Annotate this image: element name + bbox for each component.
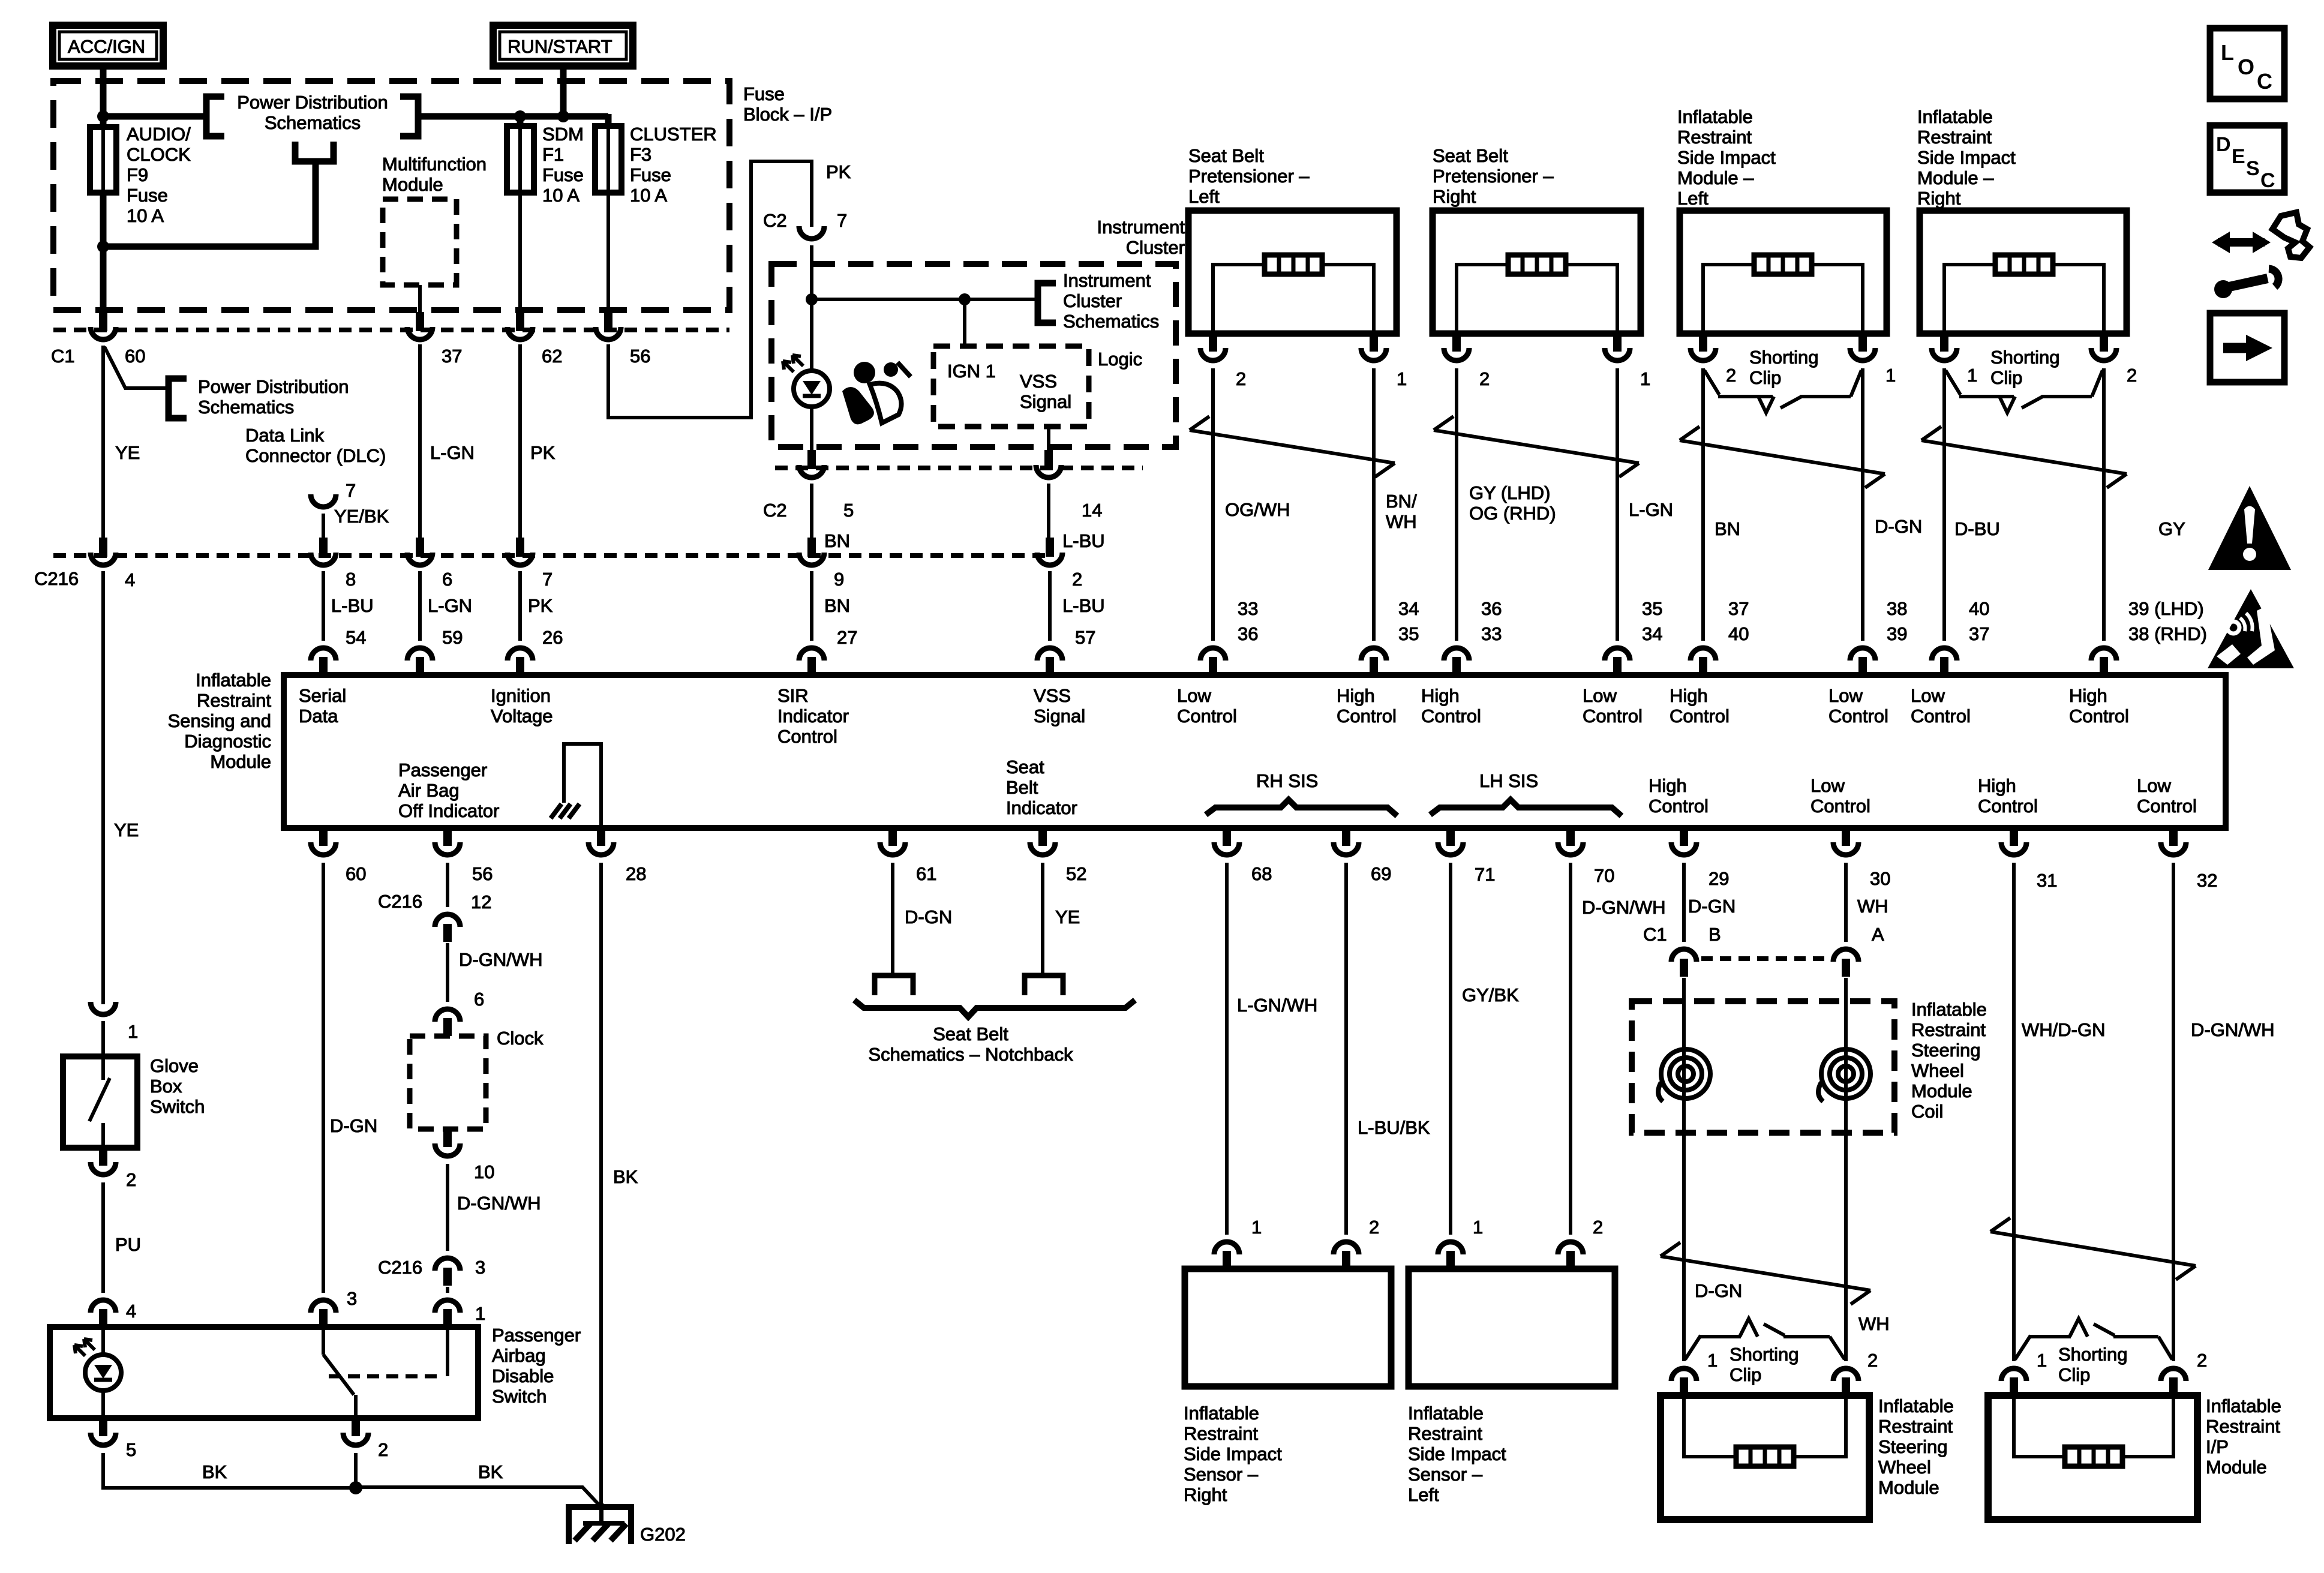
connector disable switch pin 1 <box>435 1300 460 1327</box>
svg-text:29: 29 <box>1709 868 1729 889</box>
svg-text:26: 26 <box>542 627 563 648</box>
connector SDM pin 31 <box>2001 828 2026 855</box>
svg-text:RH SIS: RH SIS <box>1256 770 1318 791</box>
svg-text:WH/D-GN: WH/D-GN <box>2022 1019 2105 1040</box>
svg-text:C216: C216 <box>34 568 79 589</box>
svg-text:Module: Module <box>2206 1457 2267 1478</box>
connector glove box pin 1 <box>91 1002 116 1014</box>
connector SDM pin 52 <box>1030 828 1055 855</box>
connector clock pin 10 <box>435 1129 460 1156</box>
svg-text:D-GN: D-GN <box>330 1115 377 1136</box>
svg-text:High: High <box>1649 775 1687 796</box>
svg-text:Clock: Clock <box>497 1028 544 1049</box>
svg-text:1: 1 <box>1967 365 1977 386</box>
connector clock pin 6 <box>435 1009 460 1036</box>
wire bracket to fuses F1/F3 <box>418 113 608 120</box>
junction node at F1 <box>514 110 526 122</box>
svg-text:Inflatable: Inflatable <box>1677 106 1753 127</box>
SDM module box <box>284 675 2226 828</box>
svg-text:Module: Module <box>210 751 271 772</box>
svg-text:2: 2 <box>1726 365 1736 386</box>
svg-text:Control: Control <box>1337 706 1397 727</box>
reference bracket ] power distribution <box>400 97 418 136</box>
connector SDM pin 28 <box>588 828 614 855</box>
svg-text:PK: PK <box>530 442 556 463</box>
wire WH/D-GN from SDM 31 <box>2012 863 2016 1361</box>
connector C216 pin 8 <box>311 538 336 565</box>
seat belt pretensioner left box <box>1188 211 1397 334</box>
svg-text:L-BU: L-BU <box>331 595 374 616</box>
svg-text:F9: F9 <box>127 164 148 185</box>
wire BK from pin 2 <box>354 1453 358 1488</box>
svg-text:WH: WH <box>1857 896 1888 917</box>
svg-text:14: 14 <box>1082 500 1102 521</box>
svg-text:3: 3 <box>475 1257 485 1278</box>
svg-text:VSS: VSS <box>1020 371 1057 392</box>
svg-text:36: 36 <box>1481 598 1502 619</box>
wire multifunction module down <box>418 285 422 312</box>
shorting clip SIS right <box>1945 370 2103 413</box>
svg-text:Coil: Coil <box>1911 1101 1943 1122</box>
svg-text:GY (LHD): GY (LHD) <box>1469 482 1551 503</box>
svg-text:Inflatable: Inflatable <box>1917 106 1993 127</box>
wire BN/WH pin1 to SDM 34/35 <box>1372 368 1376 641</box>
svg-text:Passenger: Passenger <box>492 1325 581 1346</box>
connector SDM pin 69 <box>1334 828 1359 855</box>
svg-text:Instrument: Instrument <box>1063 270 1151 291</box>
connector C1 pin 37 <box>407 312 433 340</box>
svg-text:Multifunction: Multifunction <box>382 154 487 175</box>
svg-text:YE/BK: YE/BK <box>334 506 389 527</box>
wire D-BU SIS-R pin1 to SDM 40/37 <box>1942 368 1946 641</box>
connector disable switch pin 4 <box>91 1300 116 1327</box>
reference bracket [ power distribution lower <box>169 379 187 418</box>
svg-text:Shorting: Shorting <box>1990 347 2059 368</box>
connector SDM pin 61 <box>880 828 905 855</box>
junction node logic <box>959 293 971 305</box>
svg-text:Inflatable: Inflatable <box>1911 999 1987 1020</box>
svg-text:Schematics: Schematics <box>1063 311 1159 332</box>
junction node cluster <box>806 293 818 305</box>
svg-text:Control: Control <box>1649 795 1709 816</box>
connector disable switch pin 2 <box>343 1418 368 1445</box>
junction node on ACC feed <box>97 110 109 122</box>
svg-text:Control: Control <box>1828 706 1888 727</box>
svg-text:Switch: Switch <box>150 1096 205 1117</box>
svg-text:Control: Control <box>1421 706 1481 727</box>
svg-text:AUDIO/: AUDIO/ <box>127 124 191 145</box>
svg-text:Restraint: Restraint <box>1917 127 1992 148</box>
svg-text:Clip: Clip <box>1990 367 2022 388</box>
svg-text:62: 62 <box>542 346 562 367</box>
svg-text:O: O <box>2238 55 2254 79</box>
svg-text:RUN/START: RUN/START <box>508 36 612 57</box>
wire disable switch pin 1 inside <box>446 1327 449 1376</box>
connector line C1 (dashed) <box>53 328 729 332</box>
svg-text:Schematics: Schematics <box>198 397 294 418</box>
svg-text:38: 38 <box>1887 598 1907 619</box>
wire BN down <box>810 484 813 538</box>
connector C1 pin 62 <box>508 312 533 340</box>
svg-text:38 (RHD): 38 (RHD) <box>2128 623 2207 644</box>
svg-text:Clip: Clip <box>2058 1364 2090 1385</box>
svg-text:L-BU: L-BU <box>1062 530 1105 551</box>
connector SDM pin 32 <box>2161 828 2186 855</box>
svg-text:Voltage: Voltage <box>491 706 553 727</box>
connector pretensioner left pin 1 <box>1361 334 1386 361</box>
reference bracket [ power distribution <box>206 97 224 136</box>
connector sensor right pin 1 <box>1214 1242 1239 1269</box>
svg-text:Shorting: Shorting <box>1730 1344 1798 1365</box>
svg-text:High: High <box>2069 685 2107 706</box>
svg-text:Sensor –: Sensor – <box>1408 1464 1483 1485</box>
svg-text:Module –: Module – <box>1677 167 1754 188</box>
svg-text:1: 1 <box>1397 368 1407 389</box>
wire ACC feed to reference bracket <box>103 113 206 120</box>
svg-text:Glove: Glove <box>150 1055 199 1076</box>
wire pin6 to SDM 59 <box>418 571 422 641</box>
LED air bag indicator <box>783 355 830 407</box>
svg-text:CLOCK: CLOCK <box>127 144 191 165</box>
svg-text:D: D <box>2216 133 2231 156</box>
connector SDM pin 60 <box>311 828 336 855</box>
svg-text:BN/: BN/ <box>1386 491 1417 512</box>
wire from RUN/START into fuse block <box>560 66 567 116</box>
svg-text:Airbag: Airbag <box>492 1345 546 1366</box>
svg-text:Left: Left <box>1408 1484 1439 1505</box>
svg-text:Control: Control <box>2069 706 2129 727</box>
svg-text:57: 57 <box>1075 627 1095 648</box>
wire down to F1 fuse <box>517 116 524 127</box>
svg-text:Control: Control <box>1978 795 2038 816</box>
fuse F3 CLUSTER <box>606 127 610 193</box>
connector sensor left pin 1 <box>1438 1242 1463 1269</box>
connector SDM pin 71 <box>1438 828 1463 855</box>
svg-text:Box: Box <box>150 1076 182 1097</box>
svg-text:LH SIS: LH SIS <box>1479 770 1538 791</box>
wire multifunction module column L-GN <box>418 344 422 538</box>
crossover option arrow pretensioner right <box>1434 416 1639 477</box>
connector disable switch pin 5 <box>91 1418 116 1445</box>
svg-text:8: 8 <box>346 569 356 590</box>
wire BK to ground <box>356 1487 600 1506</box>
connector C2 pin 5 <box>799 450 824 478</box>
wire WH from SDM 30 <box>1844 863 1848 942</box>
connector SIS right pin 2 <box>2091 334 2116 361</box>
svg-text:3: 3 <box>347 1288 357 1309</box>
svg-text:Disable: Disable <box>492 1365 554 1386</box>
svg-text:ACC/IGN: ACC/IGN <box>68 36 145 57</box>
svg-text:Inflatable: Inflatable <box>2206 1395 2281 1416</box>
connector steering module pin 1 <box>1671 1368 1697 1395</box>
side impact sensor left box <box>1409 1269 1615 1386</box>
connector sensor right pin 2 <box>1334 1242 1359 1269</box>
svg-text:1: 1 <box>1707 1350 1718 1371</box>
svg-text:35: 35 <box>1642 598 1662 619</box>
connector SDM pin 59 <box>407 648 433 675</box>
svg-text:Serial: Serial <box>299 685 346 706</box>
wire D-GN from SDM 60 to disable switch pin 3 <box>322 863 325 1293</box>
svg-text:Belt: Belt <box>1006 777 1038 798</box>
svg-text:Module: Module <box>1878 1477 1939 1498</box>
svg-text:7: 7 <box>346 480 356 501</box>
SIS module right internal squib circuit <box>1944 265 2104 334</box>
SIS module left internal squib circuit <box>1703 265 1863 334</box>
svg-text:CLUSTER: CLUSTER <box>630 124 717 145</box>
svg-text:32: 32 <box>2197 870 2217 891</box>
svg-text:BN: BN <box>824 595 850 616</box>
svg-text:Low: Low <box>2137 775 2171 796</box>
svg-text:Seat: Seat <box>1006 757 1044 778</box>
steering wheel coil dashed box <box>1632 1001 1894 1133</box>
icon DESC box <box>2210 125 2284 193</box>
svg-text:SDM: SDM <box>542 124 584 145</box>
svg-text:2: 2 <box>2127 365 2137 386</box>
icon LOC box <box>2210 28 2284 99</box>
glove box switch contact <box>101 1056 105 1080</box>
svg-text:OG (RHD): OG (RHD) <box>1469 503 1556 524</box>
connector SDM pin 29 <box>1671 828 1697 855</box>
svg-text:Instrument: Instrument <box>1097 217 1185 238</box>
wire pin2 to SDM 57 <box>1048 571 1052 641</box>
wire YE from SDM 52 <box>1041 863 1044 975</box>
wire D-GN/WH from SDM 70 <box>1569 863 1572 1235</box>
svg-text:Indicator: Indicator <box>777 706 849 727</box>
connector disable switch pin 3 <box>311 1300 336 1327</box>
svg-text:35: 35 <box>1398 623 1419 644</box>
inflatable restraint side impact module left box <box>1680 211 1887 334</box>
svg-text:Control: Control <box>1810 795 1870 816</box>
svg-text:Control: Control <box>1911 706 1971 727</box>
svg-text:BK: BK <box>202 1461 227 1482</box>
connector SDM pin 30 <box>1833 828 1858 855</box>
svg-text:D-GN: D-GN <box>905 906 952 927</box>
svg-text:L-GN/WH: L-GN/WH <box>1237 995 1317 1016</box>
seat belt pretensioner right box <box>1433 211 1641 334</box>
glove box switch box <box>63 1056 137 1148</box>
brace RH SIS <box>1206 800 1397 816</box>
svg-text:Schematics: Schematics <box>265 112 361 133</box>
svg-text:A: A <box>1872 924 1884 945</box>
svg-text:2: 2 <box>126 1169 136 1190</box>
connector sensor left pin 2 <box>1558 1242 1583 1269</box>
svg-text:Fuse: Fuse <box>127 185 168 206</box>
wire F1 column PK <box>518 344 522 538</box>
svg-text:F3: F3 <box>630 144 651 165</box>
svg-text:6: 6 <box>442 569 452 590</box>
svg-text:1: 1 <box>1473 1217 1483 1238</box>
svg-text:2: 2 <box>2197 1350 2207 1371</box>
svg-text:Logic: Logic <box>1098 349 1142 370</box>
svg-text:D-GN/WH: D-GN/WH <box>2191 1019 2274 1040</box>
svg-text:2: 2 <box>1867 1350 1878 1371</box>
connector SDM pin 68 <box>1214 828 1239 855</box>
svg-text:Low: Low <box>1177 685 1211 706</box>
wire down to F3 fuse <box>605 114 612 127</box>
clock dashed box <box>410 1036 486 1129</box>
svg-text:Pretensioner –: Pretensioner – <box>1188 166 1310 187</box>
svg-text:I/P: I/P <box>2206 1436 2229 1457</box>
svg-text:4: 4 <box>126 1301 136 1322</box>
wire pin8 to SDM 54 <box>322 571 325 641</box>
svg-text:5: 5 <box>843 500 854 521</box>
svg-text:Inflatable: Inflatable <box>196 670 271 691</box>
connector SDM pin 57 <box>1037 648 1062 675</box>
svg-text:B: B <box>1709 924 1721 945</box>
wire to disable switch pin 1 <box>446 1287 449 1293</box>
svg-text:37: 37 <box>1728 598 1749 619</box>
connector pretensioner left pin 2 <box>1200 334 1226 361</box>
svg-text:C1: C1 <box>51 346 75 367</box>
wire pin7 to SDM 26 <box>518 571 522 641</box>
svg-text:10 A: 10 A <box>127 205 164 226</box>
svg-text:Module –: Module – <box>1917 167 1994 188</box>
svg-text:WH: WH <box>1858 1313 1890 1334</box>
airbag person pictogram <box>842 362 911 424</box>
svg-text:C216: C216 <box>378 1257 422 1278</box>
svg-text:Signal: Signal <box>1034 706 1085 727</box>
svg-text:Clip: Clip <box>1730 1364 1761 1385</box>
steering module internal squib circuit <box>1684 1395 1846 1457</box>
svg-text:2: 2 <box>1072 569 1082 590</box>
connector C2 pin 7 <box>799 226 824 239</box>
svg-text:Power Distribution: Power Distribution <box>198 376 349 397</box>
svg-text:1: 1 <box>128 1021 138 1042</box>
connector C2 pin 14 <box>1036 450 1061 478</box>
crossover option arrow SIS left <box>1680 427 1885 488</box>
svg-text:C1: C1 <box>1643 924 1667 945</box>
svg-text:Cluster: Cluster <box>1063 290 1122 311</box>
svg-text:5: 5 <box>126 1439 136 1460</box>
svg-text:68: 68 <box>1251 863 1272 884</box>
passenger airbag disable switch box <box>50 1327 478 1418</box>
connector SIS right pin 1 <box>1932 334 1957 361</box>
wire LED down <box>810 409 813 451</box>
svg-text:C2: C2 <box>763 500 787 521</box>
svg-text:Control: Control <box>2137 795 2197 816</box>
wire D-GN/WH from clock <box>446 1164 449 1251</box>
svg-text:C216: C216 <box>378 891 422 912</box>
svg-text:28: 28 <box>626 863 646 884</box>
svg-text:37: 37 <box>1969 623 1989 644</box>
svg-text:L-GN: L-GN <box>430 442 475 463</box>
connector C216 pin 3 <box>435 1258 460 1286</box>
svg-text:30: 30 <box>1870 868 1890 889</box>
svg-text:69: 69 <box>1371 863 1391 884</box>
svg-text:Left: Left <box>1188 186 1220 207</box>
connector pretensioner right pin 1 <box>1605 334 1630 361</box>
svg-text:Module: Module <box>1911 1080 1972 1101</box>
wire below fuse F3 <box>606 193 610 312</box>
svg-text:Right: Right <box>1184 1484 1227 1505</box>
svg-text:Steering: Steering <box>1911 1040 1980 1061</box>
svg-text:Seat Belt: Seat Belt <box>933 1023 1008 1044</box>
wire D-GN from SDM 29 <box>1682 863 1686 942</box>
svg-text:34: 34 <box>1642 623 1662 644</box>
svg-text:WH: WH <box>1386 511 1417 532</box>
svg-text:1: 1 <box>2037 1350 2047 1371</box>
I/P module internal squib circuit <box>2014 1395 2173 1457</box>
inflatable restraint I/P module box <box>1988 1395 2197 1520</box>
icon harness routing (arrow and wrench) <box>2212 212 2310 298</box>
connector I/P module pin 1 <box>2001 1368 2026 1395</box>
svg-text:59: 59 <box>442 627 463 648</box>
svg-text:56: 56 <box>472 863 493 884</box>
connector C216 pin 4 <box>91 538 116 565</box>
connector SDM pin 27 <box>799 648 824 675</box>
svg-text:Block – I/P: Block – I/P <box>743 104 832 125</box>
connector C1 pin B <box>1671 949 1697 977</box>
wire branch to schematics under-bracket <box>103 163 316 247</box>
svg-text:Side Impact: Side Impact <box>1917 147 2016 168</box>
brace LH SIS <box>1430 800 1622 816</box>
svg-text:Side Impact: Side Impact <box>1677 147 1776 168</box>
svg-text:40: 40 <box>1728 623 1749 644</box>
dashed connector link B-A <box>1701 956 1830 961</box>
connector C1 pin A <box>1833 949 1858 977</box>
LED indicator inside disable switch <box>101 1327 105 1353</box>
svg-text:2: 2 <box>1479 368 1490 389</box>
svg-text:10 A: 10 A <box>630 185 667 206</box>
wire GY/BK from SDM 71 <box>1449 863 1452 1235</box>
svg-text:Side Impact: Side Impact <box>1184 1443 1282 1464</box>
wire F3 column to cluster (PK) <box>608 161 812 418</box>
fuse F1 SDM <box>518 127 522 193</box>
svg-text:Inflatable: Inflatable <box>1184 1403 1259 1424</box>
svg-text:YE: YE <box>1055 906 1080 927</box>
svg-text:2: 2 <box>378 1439 388 1460</box>
svg-text:BK: BK <box>478 1461 503 1482</box>
svg-text:71: 71 <box>1475 864 1495 885</box>
wire into glove box <box>101 1021 105 1056</box>
svg-text:Right: Right <box>1917 188 1961 209</box>
power label box RUN/START <box>493 25 633 66</box>
svg-text:D-GN/WH: D-GN/WH <box>459 949 542 970</box>
wire to logic box <box>963 299 966 346</box>
svg-text:52: 52 <box>1066 863 1086 884</box>
wire L-BU/BK from SDM 69 <box>1344 863 1348 1235</box>
connector SDM pin 26 <box>508 648 533 675</box>
svg-text:12: 12 <box>471 891 491 912</box>
shorting clip steering wheel <box>1685 1319 1845 1359</box>
svg-text:High: High <box>1421 685 1460 706</box>
side impact sensor right box <box>1185 1269 1391 1386</box>
svg-text:D-GN: D-GN <box>1688 896 1736 917</box>
svg-text:2: 2 <box>1593 1217 1603 1238</box>
connector SIS left pin 2 <box>1691 334 1716 361</box>
svg-text:Low: Low <box>1828 685 1863 706</box>
crossover option arrow I/P module <box>1990 1218 2196 1280</box>
wire D-GN/WH from SDM 32 <box>2172 863 2175 1361</box>
svg-text:36: 36 <box>1238 623 1258 644</box>
wire L-GN/WH from SDM 68 <box>1225 863 1229 1235</box>
svg-text:G202: G202 <box>640 1524 686 1545</box>
svg-text:Schematics – Notchback: Schematics – Notchback <box>868 1044 1073 1065</box>
svg-text:High: High <box>1978 775 2016 796</box>
connector SDM pin 56 <box>435 828 460 855</box>
ground G202 <box>569 1503 686 1545</box>
wire through coil 2 <box>1844 978 1848 1361</box>
wire from SDM 56 down <box>446 863 449 907</box>
svg-text:70: 70 <box>1594 865 1614 886</box>
wire through coil 1 <box>1682 978 1686 1361</box>
svg-text:Control: Control <box>1583 706 1643 727</box>
svg-text:Sensor –: Sensor – <box>1184 1464 1259 1485</box>
svg-text:SIR: SIR <box>777 685 809 706</box>
svg-text:D-GN: D-GN <box>1875 516 1922 537</box>
svg-text:High: High <box>1670 685 1708 706</box>
svg-text:27: 27 <box>837 627 857 648</box>
